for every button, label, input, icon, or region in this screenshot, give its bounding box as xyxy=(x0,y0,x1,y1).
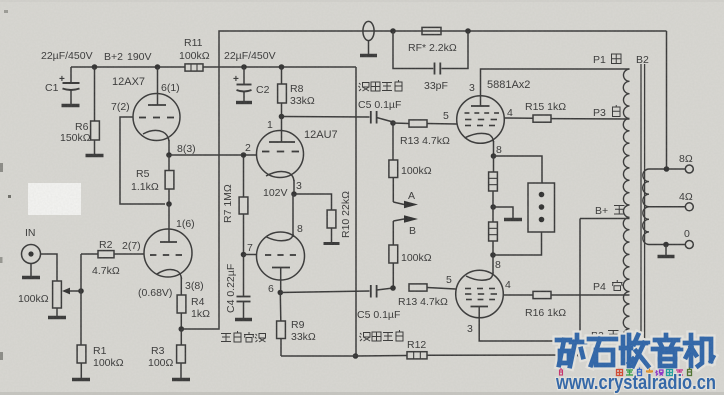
wire wiper to R1 xyxy=(80,291,82,345)
capacitor C1 22uF/450V xyxy=(45,67,80,104)
wire cathode pin8 V2b xyxy=(293,194,303,237)
pin 5 wire upper 5881 (grid) xyxy=(443,110,449,122)
junction R7 grid dot xyxy=(241,152,247,158)
terminal 4 ohm xyxy=(679,191,693,211)
label 法国苏伦 (Solen France) xyxy=(221,331,266,342)
capacitor C5 lower 0.1uF xyxy=(280,285,393,298)
label B2 xyxy=(636,54,649,66)
grid dashes V1a xyxy=(139,117,174,119)
ground (IN jack) xyxy=(22,276,40,279)
tube V2a 12AU7 upper triode xyxy=(257,129,338,178)
ground (C4) xyxy=(235,318,252,321)
wire 4ohm tap xyxy=(649,206,685,208)
capacitor 33pF parallel xyxy=(393,31,468,92)
tap P3 blue xyxy=(593,105,620,119)
box terminal dot 2 xyxy=(539,204,545,210)
junction grid node lower 5881 xyxy=(390,285,396,291)
ground (R6) xyxy=(86,154,104,157)
tube V3 5881 upper xyxy=(457,79,531,143)
tube V4 5881 lower xyxy=(456,270,504,318)
junction V2a plate node xyxy=(279,114,285,120)
tube V1a 12AX7 upper triode xyxy=(112,76,180,141)
anode plate V4 xyxy=(471,307,489,319)
ground (R3) xyxy=(172,378,190,381)
resistor R8 33k xyxy=(278,67,315,116)
junction cathode resistors mid xyxy=(490,204,496,210)
grid dashes V3 g2 xyxy=(465,119,497,121)
capacitor C4 0.22uF xyxy=(225,255,251,319)
label oil capacitor upper xyxy=(358,80,402,111)
transformer B2 secondary coil xyxy=(643,169,649,245)
junction B+ feed xyxy=(577,352,583,358)
wire grid V2a from SRPP out xyxy=(169,154,257,156)
grid dashes V4 g3 xyxy=(466,299,495,301)
wire 0 tap xyxy=(649,244,685,246)
junction cathode 8(3) xyxy=(166,143,195,158)
tube V2b 12AU7 lower triode xyxy=(257,232,305,280)
resistor grid leak 100k upper xyxy=(389,123,432,202)
resistor R5 1.1k xyxy=(131,155,174,204)
wire cathode pin8 V4 xyxy=(493,255,501,273)
grid dashes V3 g3 xyxy=(465,125,495,127)
wire bus R12 to B+ xyxy=(427,354,580,356)
resistor R15 1k xyxy=(504,101,629,122)
junction wiper node xyxy=(78,288,84,294)
value label 22uF/450V (C1) xyxy=(41,50,93,62)
transformer B2 primary coil xyxy=(623,69,629,341)
wire B+2 rail (top horizontal) xyxy=(71,66,356,68)
junction grid V2b pin7 xyxy=(241,242,253,257)
junction cathode V4 node xyxy=(490,252,496,258)
junction 12AX7 plate/B+2 xyxy=(155,64,161,70)
cathode V1a xyxy=(143,130,169,155)
wire jack to pot xyxy=(41,254,58,281)
label oil capacitor lower xyxy=(357,309,403,341)
resistor cathode lower xyxy=(489,207,498,255)
wire plate pin6 xyxy=(157,67,159,105)
watermark big char 收 xyxy=(621,335,648,366)
junction C2 xyxy=(241,64,247,70)
grid dashes V2b xyxy=(265,254,296,256)
wire link to meter box top xyxy=(494,156,543,183)
value label 22uF/450V (C2) xyxy=(224,50,276,62)
grid dashes V1b xyxy=(150,254,182,256)
ground (C1) xyxy=(62,104,80,107)
watermark url xyxy=(555,372,716,394)
junction cathode V3 xyxy=(491,153,497,159)
junction RF left xyxy=(390,28,396,34)
pin 4 label lower 5881 xyxy=(505,279,511,291)
grid dashes V4 g2 xyxy=(465,293,497,295)
pin 3(8) label xyxy=(185,280,204,292)
ground (secondary 0) xyxy=(658,255,675,258)
transformer core xyxy=(641,64,645,346)
ground (C2) xyxy=(236,101,252,104)
wire bus R9 to R12 xyxy=(281,355,407,358)
cathode V1b xyxy=(157,270,182,295)
watermark mini rainbow text xyxy=(560,368,692,376)
junction grid node upper 5881 xyxy=(390,120,396,126)
watermark big char 机 xyxy=(685,335,713,366)
junction 0 tap xyxy=(663,242,669,248)
junction R4/R3/NFB xyxy=(179,326,185,332)
cathode V2b (top arc) xyxy=(267,234,294,241)
junction cathodyne node 102V xyxy=(263,187,297,199)
cathode V2a xyxy=(266,172,294,194)
resistor cathode upper xyxy=(489,156,498,207)
grid dashes V2a xyxy=(262,151,299,153)
wire 8ohm tap xyxy=(649,168,685,170)
wire plate pin1 xyxy=(168,204,170,242)
wire B+ vertical xyxy=(579,219,581,356)
tap P4 green xyxy=(593,280,623,293)
watermark big char 音 xyxy=(653,335,681,366)
junction B+2 xyxy=(92,64,98,70)
pin 1 label xyxy=(267,119,273,131)
wire grid V2b xyxy=(244,254,257,256)
box terminal dot 1 xyxy=(539,192,545,198)
resistor R4 1k xyxy=(177,295,210,329)
resistor R3 100 xyxy=(148,329,185,378)
terminal 8 ohm xyxy=(679,153,693,173)
resistor R7 1M xyxy=(222,155,248,255)
tap P1 purple xyxy=(593,54,621,66)
pin 3 label upper 5881 xyxy=(469,82,475,94)
wire grid pin7 loop xyxy=(111,101,165,204)
pin 3 label lower 5881 xyxy=(467,323,473,335)
tap B+ red xyxy=(595,205,625,217)
pin 5 label lower 5881 xyxy=(446,274,452,286)
tap P2 yellow xyxy=(591,330,619,342)
pin 8 label upper 5881 xyxy=(496,144,502,156)
node B+2 190V label xyxy=(104,51,152,63)
pin 1(6) label xyxy=(176,218,195,230)
node B test point xyxy=(393,215,418,237)
junction R5 bottom / V1b plate xyxy=(166,201,172,207)
ground (R1) xyxy=(72,378,90,381)
resistor R13 4.7k upper xyxy=(393,120,457,147)
resistor RF* 2.2k xyxy=(408,27,457,54)
pin 2 label xyxy=(245,142,251,154)
anode plate V1a xyxy=(148,104,166,106)
scan speck xyxy=(8,195,11,198)
jumper/fuse oval on NFB rail xyxy=(363,21,374,54)
capacitor C2 22uF/450V xyxy=(233,67,270,101)
resistor R1 100k xyxy=(77,345,124,378)
resistor grid leak 100k lower xyxy=(389,221,432,288)
resistor R2 4.7k xyxy=(81,239,144,277)
bias label (0.68V) xyxy=(138,287,172,299)
scan edge specks xyxy=(0,10,8,360)
anode plate V2b xyxy=(272,268,290,293)
wire plate pin1 V2a xyxy=(281,117,283,143)
watermark big char 石 xyxy=(589,339,616,365)
wire NFB down to 8ohm tap xyxy=(666,31,668,169)
potentiometer 100k xyxy=(18,281,61,316)
ground (pot) xyxy=(48,316,66,319)
resistor R13 4.7k lower xyxy=(398,284,456,308)
node A test point xyxy=(393,190,418,208)
cathode V4 (top arc) xyxy=(466,273,493,281)
wire supply feed vertical xyxy=(355,67,357,356)
wire box bottom to cathode V4 xyxy=(493,232,542,255)
wire 0 to ground xyxy=(665,245,667,256)
watermark big char 矿 xyxy=(557,335,585,366)
ground (cathode mid) xyxy=(504,218,522,221)
ground (oval) xyxy=(360,54,377,57)
junction NFB/8ohm xyxy=(664,166,670,172)
pin 2(7) label xyxy=(122,240,141,252)
anode plate V2a xyxy=(269,141,295,143)
resistor R6 150k xyxy=(60,67,99,154)
junction V2b plate node xyxy=(268,283,283,295)
cathode V3 xyxy=(465,133,494,156)
junction RF right xyxy=(465,28,471,34)
grid dashes V3 g1 xyxy=(465,112,500,114)
meter/switch box xyxy=(528,183,555,232)
wire B+ tap xyxy=(580,218,630,220)
wire plate V3 to P1 xyxy=(481,69,630,106)
resistor R11 100k xyxy=(179,37,210,71)
box terminal dot 3 xyxy=(539,217,545,223)
pot wiper arrow xyxy=(62,288,81,295)
resistor R9 33k xyxy=(277,293,316,357)
anode plate V3 xyxy=(471,105,490,107)
wire wiper to grid xyxy=(80,254,82,291)
resistor R12 xyxy=(407,339,427,359)
white correction patch xyxy=(28,183,81,215)
anode plate V1b xyxy=(160,241,177,243)
tube V1b 12AX7 lower triode xyxy=(144,229,192,277)
input jack IN xyxy=(22,227,41,264)
wire NFB cathode to top rail xyxy=(181,31,666,329)
pin 3 label xyxy=(296,180,302,192)
resistor R16 1k xyxy=(503,291,629,319)
junction supply/bus xyxy=(353,353,359,359)
junction R8 top xyxy=(279,64,285,70)
resistor R10 22k xyxy=(294,191,352,242)
ground (R10) xyxy=(324,242,340,245)
capacitor C5 upper 0.1uF xyxy=(282,111,394,124)
pin 6(1) label xyxy=(161,82,180,94)
grid dashes V4 g1 xyxy=(465,288,495,290)
wire to ground tap xyxy=(493,207,513,218)
terminal 0 xyxy=(684,228,693,249)
pin 4 label upper 5881 xyxy=(507,107,513,119)
wire plate V4 to P2 xyxy=(479,318,629,341)
wire jack ground xyxy=(30,264,32,277)
